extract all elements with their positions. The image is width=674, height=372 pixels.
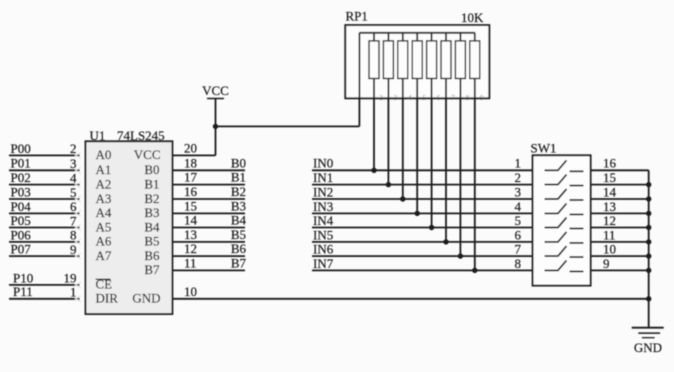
svg-text:12: 12 bbox=[184, 241, 197, 256]
svg-text:1: 1 bbox=[70, 285, 77, 300]
resistor RP1 element 3 bbox=[402, 33, 404, 41]
resistor RP1 element 1 bbox=[373, 33, 375, 41]
switch SW1 element 5 bbox=[545, 227, 558, 229]
switch SW1 element 3 bbox=[545, 198, 558, 200]
svg-text:3: 3 bbox=[394, 94, 398, 102]
switch SW1 element 2 bbox=[545, 184, 558, 186]
svg-text:8: 8 bbox=[515, 256, 522, 271]
resistor RP1 element 8 bbox=[474, 33, 476, 41]
svg-text:1: 1 bbox=[515, 156, 522, 171]
svg-text:IN1: IN1 bbox=[313, 170, 333, 185]
wire VCC vertical bbox=[215, 99, 217, 156]
wire RP1 element 5 to IN4 bbox=[431, 79, 433, 228]
svg-text:10: 10 bbox=[603, 242, 616, 257]
svg-text:4: 4 bbox=[70, 170, 77, 185]
svg-text:14: 14 bbox=[603, 184, 617, 199]
svg-text:9: 9 bbox=[603, 256, 610, 271]
resistor RP1 element 5 bbox=[431, 33, 433, 41]
svg-text:GND: GND bbox=[132, 291, 160, 306]
junction bus GND wire bbox=[646, 296, 651, 301]
svg-text:B4: B4 bbox=[144, 219, 160, 234]
svg-text:IN5: IN5 bbox=[313, 227, 333, 242]
svg-text:SW1: SW1 bbox=[531, 141, 557, 156]
svg-text:IN2: IN2 bbox=[313, 184, 333, 199]
junction IN6 bbox=[458, 253, 463, 258]
RP1 body outline bbox=[345, 25, 489, 98]
svg-text:7: 7 bbox=[515, 242, 522, 257]
svg-text:15: 15 bbox=[603, 170, 616, 185]
svg-text:8: 8 bbox=[70, 228, 77, 243]
svg-text:5: 5 bbox=[515, 213, 522, 228]
junction bus row 13 bbox=[646, 211, 651, 216]
svg-text:B5: B5 bbox=[231, 227, 246, 242]
svg-text:B1: B1 bbox=[144, 176, 159, 191]
svg-text:13: 13 bbox=[603, 199, 616, 214]
junction IN0 bbox=[371, 168, 376, 173]
junction bus row 14 bbox=[646, 196, 651, 201]
svg-text:5: 5 bbox=[70, 185, 77, 200]
svg-text:GND: GND bbox=[634, 340, 662, 355]
svg-text:P10: P10 bbox=[13, 270, 33, 285]
switch SW1 element 8 bbox=[545, 269, 558, 271]
wire RP1 element 1 to IN0 bbox=[373, 79, 375, 171]
junction IN4 bbox=[429, 225, 434, 230]
svg-text:A1: A1 bbox=[96, 162, 112, 177]
svg-text:P01: P01 bbox=[11, 156, 31, 171]
svg-text:4: 4 bbox=[515, 199, 522, 214]
svg-text:11: 11 bbox=[603, 227, 616, 242]
svg-text:7: 7 bbox=[451, 94, 455, 102]
wire RP1 element 6 to IN5 bbox=[445, 79, 447, 242]
junction bus row 11 bbox=[646, 239, 651, 244]
svg-text:B6: B6 bbox=[231, 241, 247, 256]
svg-text:14: 14 bbox=[184, 213, 198, 228]
wire RP1 element 7 to IN6 bbox=[459, 79, 461, 257]
svg-text:10: 10 bbox=[184, 284, 197, 299]
svg-text:IN0: IN0 bbox=[313, 156, 333, 171]
svg-text:6: 6 bbox=[70, 199, 77, 214]
svg-text:A5: A5 bbox=[96, 219, 112, 234]
svg-text:19: 19 bbox=[64, 271, 77, 286]
svg-text:12: 12 bbox=[603, 213, 616, 228]
svg-text:13: 13 bbox=[184, 227, 197, 242]
svg-text:B6: B6 bbox=[144, 248, 160, 263]
svg-text:A4: A4 bbox=[96, 205, 112, 220]
switch SW1 body bbox=[533, 155, 591, 285]
junction IN1 bbox=[386, 182, 391, 187]
junction IN5 bbox=[443, 239, 448, 244]
junction bus row 9 bbox=[646, 268, 651, 273]
svg-text:IN7: IN7 bbox=[313, 256, 334, 271]
svg-text:2: 2 bbox=[70, 141, 77, 156]
resistor RP1 element 7 bbox=[459, 33, 461, 41]
svg-text:P05: P05 bbox=[11, 213, 31, 228]
switch SW1 element 7 bbox=[545, 255, 558, 257]
svg-text:11: 11 bbox=[184, 255, 197, 270]
junction IN7 bbox=[472, 268, 477, 273]
switch SW1 element 4 bbox=[545, 212, 558, 214]
IC U1 74LS245 body bbox=[86, 141, 173, 314]
svg-text:A6: A6 bbox=[96, 234, 112, 249]
junction bus row 10 bbox=[646, 253, 651, 258]
svg-text:B2: B2 bbox=[231, 184, 246, 199]
svg-text:A2: A2 bbox=[96, 176, 112, 191]
resistor RP1 element 4 bbox=[416, 33, 418, 41]
svg-text:A7: A7 bbox=[96, 248, 112, 263]
svg-text:IN6: IN6 bbox=[313, 242, 334, 257]
switch SW1 element 6 bbox=[545, 241, 558, 243]
svg-text:6: 6 bbox=[437, 94, 441, 102]
svg-text:A3: A3 bbox=[96, 191, 112, 206]
wire RP1 element 4 to IN3 bbox=[416, 79, 418, 214]
svg-text:B3: B3 bbox=[144, 205, 159, 220]
svg-text:P02: P02 bbox=[11, 170, 31, 185]
junction bus row 15 bbox=[646, 182, 651, 187]
junction IN2 bbox=[400, 196, 405, 201]
svg-text:20: 20 bbox=[184, 140, 197, 155]
svg-text:2: 2 bbox=[515, 170, 522, 185]
svg-text:9: 9 bbox=[480, 94, 484, 102]
switch SW1 element 1 bbox=[545, 169, 558, 171]
svg-text:IN3: IN3 bbox=[313, 199, 333, 214]
svg-text:3: 3 bbox=[515, 184, 522, 199]
svg-text:DIR: DIR bbox=[96, 291, 119, 306]
wire RP1 element 2 to IN1 bbox=[387, 79, 389, 185]
svg-text:7: 7 bbox=[70, 213, 77, 228]
svg-text:P07: P07 bbox=[11, 242, 32, 257]
svg-text:18: 18 bbox=[184, 155, 197, 170]
wire RP1 element 8 to IN7 bbox=[474, 79, 476, 271]
svg-text:RP1: RP1 bbox=[346, 9, 368, 24]
svg-text:15: 15 bbox=[184, 198, 197, 213]
svg-text:B7: B7 bbox=[231, 255, 247, 270]
svg-text:P04: P04 bbox=[11, 199, 32, 214]
svg-text:P00: P00 bbox=[11, 141, 31, 156]
wire VCC to RP1 common bbox=[216, 125, 360, 127]
ground symbol bbox=[632, 327, 664, 329]
svg-text:B0: B0 bbox=[144, 162, 159, 177]
junction bus row 12 bbox=[646, 225, 651, 230]
svg-text:A0: A0 bbox=[96, 147, 112, 162]
svg-text:P06: P06 bbox=[11, 227, 32, 242]
svg-text:5: 5 bbox=[422, 94, 426, 102]
svg-text:16: 16 bbox=[184, 184, 198, 199]
svg-text:B5: B5 bbox=[144, 234, 159, 249]
svg-text:P11: P11 bbox=[13, 284, 33, 299]
resistor RP1 element 2 bbox=[387, 33, 389, 41]
junction VCC node bbox=[213, 124, 218, 129]
svg-text:8: 8 bbox=[466, 94, 470, 102]
svg-text:9: 9 bbox=[70, 242, 77, 257]
svg-text:IN4: IN4 bbox=[313, 213, 334, 228]
svg-text:10K: 10K bbox=[461, 10, 484, 25]
wire ground bus vertical bbox=[648, 170, 650, 327]
svg-text:P03: P03 bbox=[11, 184, 31, 199]
wire RP1 element 3 to IN2 bbox=[402, 79, 404, 200]
svg-text:VCC: VCC bbox=[134, 147, 161, 162]
svg-text:VCC: VCC bbox=[202, 83, 229, 98]
RP1 common bus bbox=[359, 32, 475, 34]
svg-text:B7: B7 bbox=[144, 262, 160, 277]
svg-text:B2: B2 bbox=[144, 191, 159, 206]
svg-text:2: 2 bbox=[379, 94, 383, 102]
wire RP1 common pin to VCC bbox=[358, 33, 360, 127]
svg-text:16: 16 bbox=[603, 156, 617, 171]
svg-text:6: 6 bbox=[515, 227, 522, 242]
resistor RP1 element 6 bbox=[445, 33, 447, 41]
svg-text:4: 4 bbox=[408, 94, 412, 102]
svg-text:17: 17 bbox=[184, 170, 198, 185]
svg-text:B0: B0 bbox=[231, 155, 246, 170]
svg-text:B3: B3 bbox=[231, 198, 246, 213]
junction IN3 bbox=[415, 211, 420, 216]
svg-text:B4: B4 bbox=[231, 213, 247, 228]
svg-text:B1: B1 bbox=[231, 170, 246, 185]
svg-text:3: 3 bbox=[70, 156, 77, 171]
